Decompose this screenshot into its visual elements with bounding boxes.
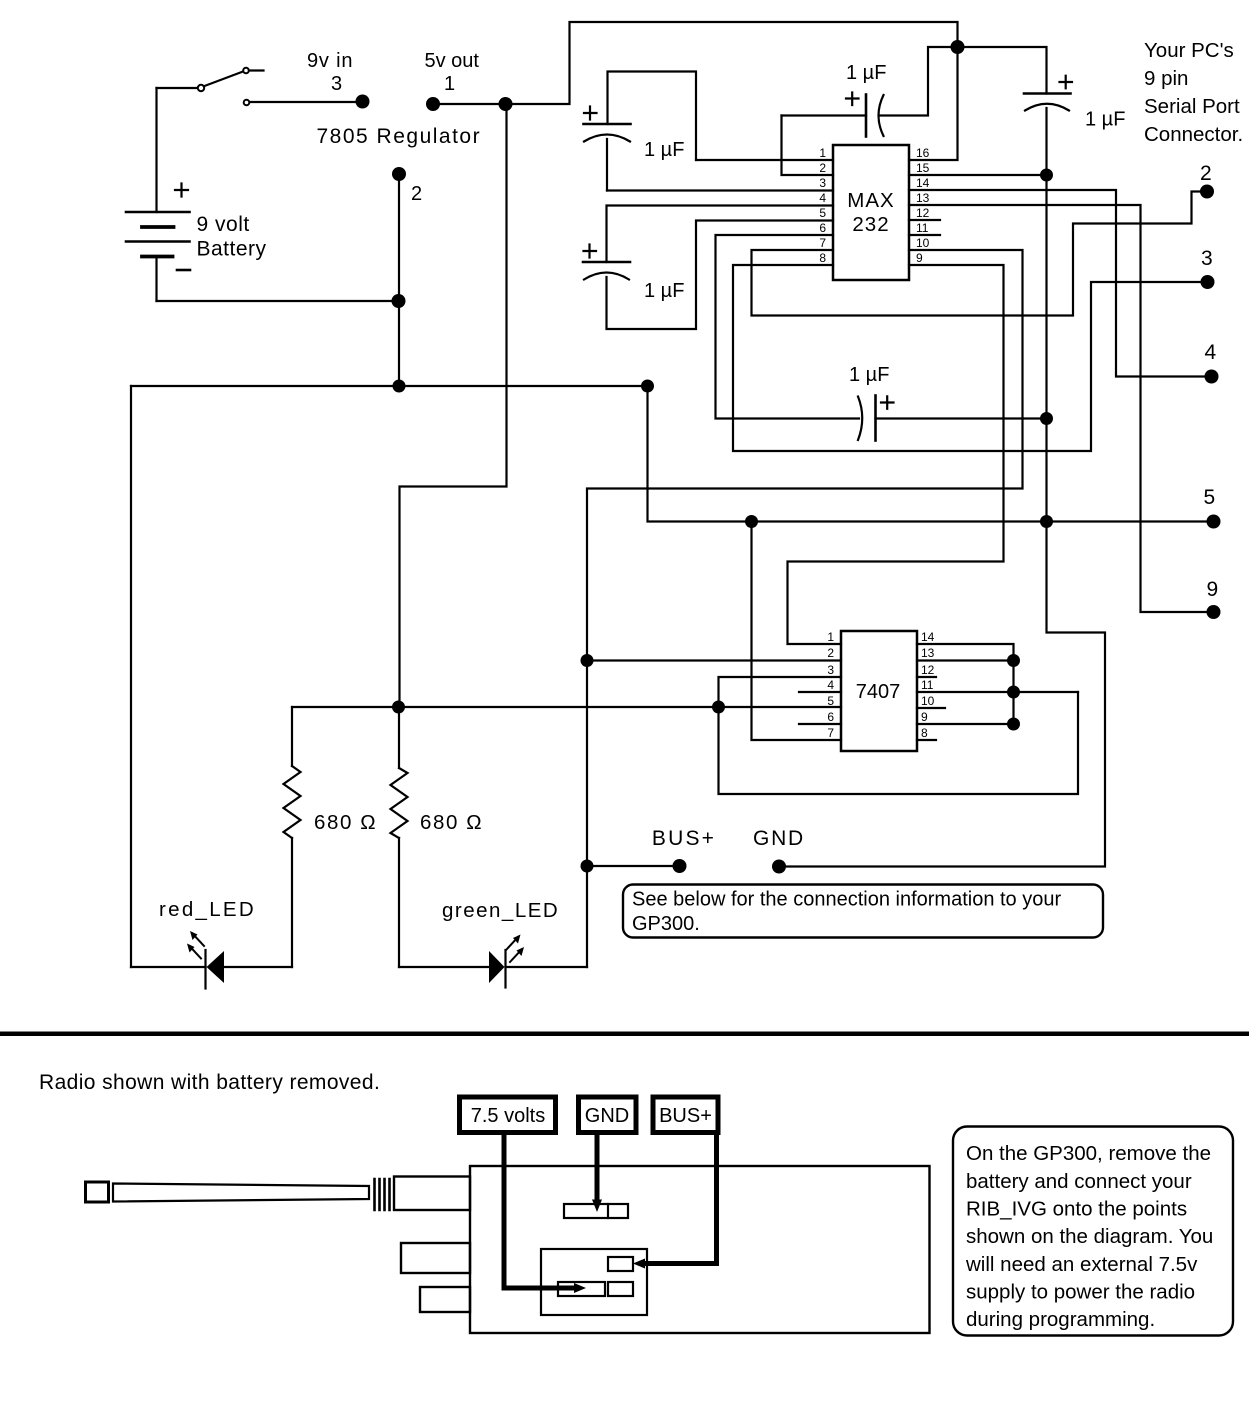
- svg-text:5: 5: [1204, 486, 1216, 509]
- capacitor C3 1uF: [782, 47, 958, 175]
- junction ground vertical: [1040, 515, 1053, 528]
- svg-text:will need an external 7.5v: will need an external 7.5v: [965, 1253, 1198, 1276]
- capacitor C5 1uF: [716, 235, 1047, 441]
- node 9v in (7805 pin 3): [356, 95, 370, 109]
- svg-text:RIB_IVG onto the points: RIB_IVG onto the points: [966, 1198, 1187, 1221]
- GND contact pad: [564, 1204, 628, 1218]
- junction ground rail: [393, 380, 406, 393]
- svg-text:BUS+: BUS+: [652, 827, 716, 850]
- antenna base: [394, 1177, 470, 1211]
- junction ground rail right: [641, 380, 654, 393]
- svg-text:Connector.: Connector.: [1144, 123, 1243, 146]
- op-amp U1 MAX232: [833, 145, 909, 280]
- junction 5v top: [951, 40, 965, 54]
- capacitor C4 1uF: [958, 47, 1073, 175]
- svg-text:12: 12: [921, 663, 935, 677]
- junction outputs b: [1007, 686, 1020, 699]
- wire MAX232 pin13 to serial pin9: [909, 205, 1213, 612]
- wire down to ground rail: [398, 301, 400, 386]
- svg-text:1: 1: [444, 73, 455, 95]
- svg-text:4: 4: [827, 678, 834, 692]
- junction ground 7407 pin7 branch: [745, 515, 758, 528]
- resistor R2 680 ohm: [398, 707, 400, 768]
- wire MAX232 pin11 stub: [909, 234, 940, 236]
- LED D1 red_LED: [131, 931, 292, 989]
- svg-text:BUS+: BUS+: [659, 1105, 712, 1127]
- svg-text:Your PC's: Your PC's: [1144, 39, 1234, 62]
- switch S1: [157, 68, 356, 106]
- wire BUS+ thick: [642, 1133, 717, 1264]
- wire MAX232 pin7 to serial pin2: [752, 192, 1207, 316]
- svg-text:11: 11: [916, 221, 929, 235]
- svg-text:during programming.: during programming.: [966, 1308, 1155, 1331]
- wire outputs loop to bus: [719, 692, 1079, 794]
- wire 7407 pin3: [719, 677, 842, 707]
- svg-text:MAX: MAX: [847, 189, 894, 212]
- wire 7407 pin8 stub: [917, 739, 936, 741]
- note box see below: [623, 885, 1103, 938]
- svg-text:8: 8: [819, 251, 826, 265]
- wire MAX232 pin10 to 7407 pin2 and BUS+: [587, 250, 1023, 866]
- svg-text:GND: GND: [753, 827, 805, 850]
- antenna shaft: [113, 1184, 369, 1202]
- svg-text:680 Ω: 680 Ω: [420, 811, 483, 834]
- svg-text:GP300.: GP300.: [632, 913, 700, 935]
- wire 7407 pin6 stub: [799, 723, 841, 725]
- svg-text:2: 2: [411, 183, 422, 205]
- node BUS+ terminal: [673, 859, 687, 873]
- junction pin15 ground: [1040, 169, 1053, 182]
- IC U2 7407: [841, 631, 917, 751]
- label radio caption: [39, 1071, 380, 1094]
- node 7805 pin 2: [392, 167, 406, 181]
- node serial pin 9: [1207, 605, 1221, 619]
- divider line: [0, 1032, 1249, 1037]
- wire 7407 pin11: [917, 691, 1078, 693]
- node 5v out (7805 pin 1): [426, 97, 440, 111]
- wire 7805 pin2 to battery minus: [398, 174, 400, 301]
- svg-text:8: 8: [921, 726, 928, 740]
- svg-text:battery and connect your: battery and connect your: [966, 1170, 1192, 1193]
- svg-text:9 pin: 9 pin: [1144, 67, 1188, 90]
- svg-text:3: 3: [1201, 247, 1213, 270]
- wire 7.5 volts thick: [504, 1133, 577, 1288]
- svg-text:Serial Port: Serial Port: [1144, 95, 1240, 118]
- svg-text:3: 3: [331, 73, 342, 95]
- node 5v junction: [499, 97, 513, 111]
- svg-text:9: 9: [1207, 578, 1219, 601]
- svg-text:See below for the connection i: See below for the connection information…: [632, 889, 1061, 911]
- wire 5v down jog to LED resistors: [400, 104, 507, 707]
- junction C5 ground: [1040, 412, 1053, 425]
- svg-text:7: 7: [819, 236, 826, 250]
- wire MAX232 pin3: [607, 189, 833, 191]
- node serial pin 5: [1207, 515, 1221, 529]
- svg-text:5v out: 5v out: [425, 50, 480, 72]
- antenna tip: [86, 1182, 109, 1202]
- side connector lower: [420, 1287, 470, 1312]
- radio body: [470, 1166, 930, 1333]
- svg-text:1: 1: [819, 146, 826, 160]
- U2 pin numbers left: [827, 630, 834, 740]
- node GND terminal: [772, 860, 786, 874]
- wire MAX232 pin9 to 7407 pin1: [788, 265, 1004, 644]
- svg-text:7407: 7407: [856, 681, 901, 703]
- svg-text:9v in: 9v in: [307, 50, 353, 72]
- svg-text:15: 15: [916, 161, 930, 175]
- antenna ribs: [375, 1179, 390, 1210]
- wire output tie: [1012, 661, 1014, 725]
- junction bus pin5: [712, 701, 725, 714]
- wire GND thick: [595, 1133, 600, 1200]
- battery label: [197, 213, 267, 261]
- wire 7407 pin10 stub: [917, 707, 945, 709]
- svg-text:3: 3: [819, 176, 826, 190]
- wire ground rail: [131, 385, 648, 387]
- 7.5v contact pads: [558, 1282, 605, 1296]
- svg-text:10: 10: [916, 236, 930, 250]
- svg-text:1: 1: [827, 630, 834, 644]
- svg-text:2: 2: [819, 161, 826, 175]
- battery B1 9 volt: [126, 88, 190, 301]
- wire MAX232 pin14 to serial pin4: [909, 190, 1211, 377]
- wire 5v out node: [433, 103, 506, 105]
- wire ground rail left drop: [130, 386, 132, 967]
- wire ground to 7407 pin7: [752, 522, 842, 741]
- wire MAX232 pin16: [909, 47, 958, 160]
- svg-text:14: 14: [916, 176, 930, 190]
- svg-text:14: 14: [921, 630, 935, 644]
- label box GND: [579, 1097, 637, 1133]
- wire 7407 pin14: [917, 644, 1014, 661]
- svg-text:9: 9: [916, 251, 923, 265]
- svg-text:Radio shown with battery remov: Radio shown with battery removed.: [39, 1071, 380, 1094]
- svg-text:2: 2: [827, 646, 834, 660]
- wire MAX232 pin8 to serial pin3: [733, 265, 1207, 451]
- svg-text:supply to power the radio: supply to power the radio: [966, 1281, 1195, 1304]
- svg-text:6: 6: [819, 221, 826, 235]
- wire ground down to GND terminal: [779, 175, 1105, 867]
- svg-text:green_LED: green_LED: [442, 899, 559, 922]
- capacitor C2 1uF: [583, 206, 833, 330]
- svg-text:2: 2: [1200, 162, 1212, 185]
- svg-text:1 µF: 1 µF: [644, 139, 684, 161]
- svg-text:4: 4: [1205, 341, 1217, 364]
- svg-text:13: 13: [921, 646, 935, 660]
- svg-text:1 µF: 1 µF: [846, 62, 886, 84]
- label box 7.5 volts: [460, 1097, 556, 1133]
- svg-text:1 µF: 1 µF: [1085, 109, 1125, 131]
- svg-text:shown on the diagram. You: shown on the diagram. You: [966, 1225, 1213, 1248]
- junction outputs a: [1007, 654, 1020, 667]
- LED D2 green_LED: [399, 866, 587, 988]
- junction 5v at resistors: [392, 701, 405, 714]
- svg-text:11: 11: [921, 678, 934, 692]
- wire MAX232 pin1: [696, 159, 833, 161]
- side connector upper: [401, 1243, 470, 1273]
- wire 5v to top rail: [506, 22, 958, 104]
- svg-text:7.5 volts: 7.5 volts: [471, 1105, 545, 1127]
- svg-text:9 volt: 9 volt: [197, 213, 250, 236]
- U2 pin numbers right: [921, 630, 935, 740]
- junction BUS+ left: [581, 860, 594, 873]
- U1 pin numbers right: [916, 146, 930, 265]
- svg-text:5: 5: [819, 206, 826, 220]
- node serial pin 2: [1200, 185, 1214, 199]
- node serial pin 3: [1201, 275, 1215, 289]
- svg-text:6: 6: [827, 710, 834, 724]
- resistor R1 680 ohm: [291, 707, 293, 766]
- wire MAX232 pin12 stub: [909, 219, 940, 221]
- svg-text:Battery: Battery: [197, 238, 267, 261]
- label box BUS+: [653, 1097, 718, 1133]
- wire to BUS+ terminal: [587, 865, 680, 867]
- svg-text:232: 232: [852, 213, 889, 236]
- wire 7407 pin2: [587, 659, 841, 661]
- junction battery minus: [392, 294, 406, 308]
- capacitor C1 1uF: [584, 72, 697, 191]
- svg-text:1 µF: 1 µF: [849, 364, 889, 386]
- wire 7407 pin5 from resistors: [292, 706, 841, 708]
- wire 7407 pin9: [917, 723, 1014, 725]
- junction outputs c: [1007, 718, 1020, 731]
- battery compartment: [541, 1249, 647, 1315]
- svg-text:680 Ω: 680 Ω: [314, 811, 377, 834]
- svg-text:On the GP300, remove the: On the GP300, remove the: [966, 1142, 1211, 1165]
- svg-text:GND: GND: [585, 1105, 629, 1127]
- regulator U3 7805 label: [317, 125, 482, 148]
- wire ground to serial pin5: [648, 386, 1214, 522]
- svg-text:7: 7: [827, 726, 834, 740]
- svg-text:16: 16: [916, 146, 930, 160]
- wire 7407 pin4 stub: [799, 691, 841, 693]
- node serial pin 4: [1205, 370, 1219, 384]
- svg-text:9: 9: [921, 710, 928, 724]
- svg-text:4: 4: [819, 191, 826, 205]
- svg-text:3: 3: [827, 663, 834, 677]
- BUS+ contact pad: [608, 1257, 633, 1271]
- svg-text:7805 Regulator: 7805 Regulator: [317, 125, 482, 148]
- wire MAX232 pin15: [909, 174, 1047, 176]
- svg-text:12: 12: [916, 206, 930, 220]
- svg-text:1 µF: 1 µF: [644, 280, 684, 302]
- wire battery minus: [157, 300, 399, 302]
- junction 7407 pin2: [581, 654, 594, 667]
- label serial port connector: [1144, 39, 1243, 146]
- svg-text:red_LED: red_LED: [159, 898, 256, 921]
- U1 pin numbers left: [819, 146, 826, 265]
- svg-text:13: 13: [916, 191, 930, 205]
- wire 7407 pin12 stub: [917, 676, 936, 678]
- svg-text:10: 10: [921, 694, 935, 708]
- note box GP300 instructions: [953, 1127, 1233, 1336]
- wire 7407 pin13: [917, 659, 1014, 661]
